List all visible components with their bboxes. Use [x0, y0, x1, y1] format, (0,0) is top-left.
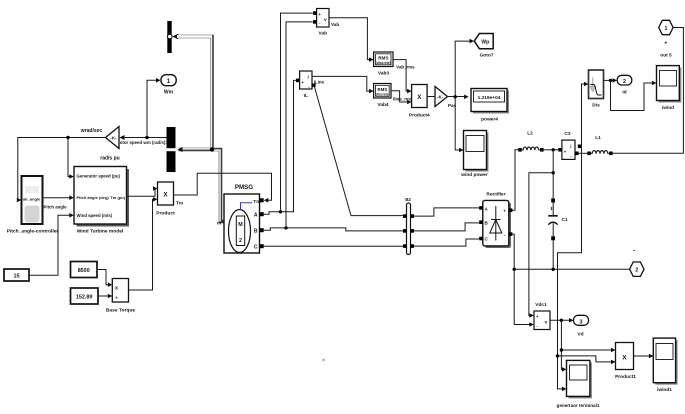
scope iwind [657, 66, 682, 111]
svg-text:+: + [301, 80, 304, 85]
svg-text:RMS: RMS [378, 55, 388, 60]
machine PMSG block [217, 194, 261, 253]
port Tm [260, 198, 264, 202]
svg-text:Tm: Tm [176, 200, 183, 206]
svg-text:15: 15 [14, 273, 20, 279]
voltage measurement Vdc1 [529, 302, 550, 330]
wire iLine signal to RMS Vab4 [312, 76, 374, 93]
svg-text:-K-: -K- [110, 136, 117, 141]
measurement bus m (double line) [177, 36, 224, 222]
svg-text:L2: L2 [527, 131, 533, 137]
svg-text:iwind1: iwind1 [657, 387, 672, 393]
bus junction dot [210, 147, 214, 151]
wire C3 to L1 [579, 152, 588, 154]
RMS block Vab4 [374, 84, 391, 109]
svg-text:Tm (pu): Tm (pu) [110, 195, 125, 200]
RMS block Vab3 [374, 52, 393, 77]
svg-text:out 5: out 5 [660, 53, 672, 59]
outport 1 Wm [161, 75, 176, 96]
voltage measurement Vab [313, 9, 329, 37]
svg-text:Base Torque: Base Torque [106, 308, 136, 314]
port hexagon 2 [630, 248, 644, 277]
svg-text:Product4: Product4 [409, 113, 430, 119]
constant 152.89 [71, 288, 99, 304]
svg-text:Vab4: Vab4 [377, 102, 389, 108]
svg-text:-K-: -K- [437, 95, 444, 100]
wire phase A continuation (diagonal) to B2 [315, 87, 404, 216]
bus bar B2 [403, 197, 414, 255]
svg-text:wrad/sec: wrad/sec [80, 128, 103, 134]
display power4 [471, 89, 509, 123]
svg-text:C: C [254, 244, 258, 250]
capacitor C1 [548, 199, 568, 270]
svg-text:3: 3 [580, 319, 583, 325]
scope wind power [460, 131, 488, 178]
svg-text:x: x [115, 286, 118, 292]
svg-text:Wind Turbine model: Wind Turbine model [77, 229, 124, 235]
svg-text:Product1: Product1 [615, 374, 636, 380]
bus selector [167, 127, 176, 172]
svg-text:Pac: Pac [448, 103, 457, 108]
svg-text:(discrete): (discrete) [375, 93, 390, 97]
port A [260, 212, 264, 216]
wire Rotor speed wm to gain [114, 135, 168, 145]
svg-text:m: m [217, 221, 221, 226]
svg-text:iLine: iLine [314, 80, 325, 85]
wire Product1 to iwind1 scope [634, 354, 654, 359]
wire 15 to wind speed input [29, 213, 74, 275]
wire L1 to port 1 [613, 28, 684, 154]
DC- rail to port 2 [513, 268, 630, 271]
subsystem Pitch_angle-controller [7, 176, 59, 235]
saturation Dis [589, 70, 604, 108]
scope genertaor terminal1 [557, 360, 600, 408]
svg-text:Rectifier: Rectifier [486, 191, 505, 197]
svg-text:i: i [308, 75, 309, 80]
svg-text:Vab_rms: Vab_rms [396, 65, 415, 70]
gain -K- (rad/s to pu) [80, 127, 120, 162]
svg-text:Id: Id [622, 90, 626, 96]
divide Base Torque [106, 279, 136, 314]
current measurement C3 [558, 131, 581, 160]
wire Id to iwind scope [611, 80, 657, 110]
wire C3 i signal up to Dis [582, 84, 586, 146]
svg-text:+: + [318, 12, 321, 17]
svg-text:Goto7: Goto7 [480, 53, 494, 59]
svg-text:<Rotor speed wm (rad/s)>: <Rotor speed wm (rad/s)> [114, 140, 168, 145]
wire B2 to rectifier C [414, 239, 479, 246]
gain Pac [435, 87, 448, 107]
svg-text:X: X [622, 355, 627, 362]
wire Tm to PMSG [174, 173, 272, 206]
svg-text:1: 1 [664, 26, 667, 32]
product Product [156, 182, 175, 217]
port B [260, 228, 264, 232]
svg-text:rad/s pu: rad/s pu [100, 156, 119, 162]
svg-text:C1: C1 [562, 217, 568, 223]
wire 152.89 to divide [98, 294, 112, 299]
svg-text:8500: 8500 [78, 268, 90, 274]
wire B2 to rectifier A [414, 208, 479, 216]
wire Product4 to gain [427, 96, 435, 98]
svg-text:v: v [545, 320, 548, 325]
svg-text:B: B [254, 228, 258, 234]
svg-text:air_angle: air_angle [23, 197, 41, 202]
svg-text:iwind: iwind [662, 105, 674, 111]
svg-text:Tm: Tm [253, 199, 260, 205]
node: branch to generator speed input [66, 136, 74, 179]
svg-text:genertaor terminal1: genertaor terminal1 [557, 403, 600, 408]
svg-text:Pitch_angle-controller: Pitch_angle-controller [7, 229, 59, 235]
svg-text:÷: ÷ [115, 296, 118, 302]
svg-text:Wm: Wm [164, 90, 174, 96]
port C [260, 244, 264, 248]
svg-text:152.89: 152.89 [76, 294, 93, 300]
outport 2 Id [617, 75, 632, 95]
rectifier [479, 191, 512, 248]
scope iwind1 [653, 338, 677, 393]
wire 8500 to divide [97, 270, 112, 288]
svg-text:+: + [536, 314, 539, 319]
current measurement IL [296, 71, 325, 99]
wire rectifier - down [512, 234, 514, 269]
inductor L1 [587, 135, 612, 155]
inductor L2 [518, 131, 543, 152]
wire Dis to Id [604, 78, 618, 83]
svg-text:PMSG: PMSG [235, 184, 253, 191]
wire DC+ branch to Vdc1 [529, 173, 553, 316]
product Product4 [409, 85, 430, 119]
wire DC+ branch to C1 [552, 150, 555, 199]
svg-text:v: v [324, 18, 327, 23]
wire phase C [264, 245, 403, 247]
node: branch to Wm outport [145, 78, 160, 139]
wire Tm(pu) to Product [127, 186, 158, 196]
product Product1 [615, 343, 636, 381]
wire phase A [264, 13, 313, 214]
wire C3 i signal down to Product1 and scope [556, 146, 616, 391]
wire L2 to C3 [544, 148, 559, 151]
svg-text:power4: power4 [481, 117, 498, 123]
outport 3 Vd [574, 315, 589, 337]
svg-text:-: - [633, 248, 635, 255]
wire Base Torque to Product [129, 197, 158, 290]
svg-text:wind power: wind power [460, 172, 488, 178]
svg-text:Product: Product [156, 211, 175, 217]
subsystem Wind Turbine model [74, 167, 129, 235]
svg-text:1: 1 [167, 78, 171, 85]
svg-text:Wind speed (m/s): Wind speed (m/s) [77, 213, 113, 218]
wire B2 to rectifier B [414, 223, 479, 231]
svg-text:+: + [564, 150, 567, 155]
wire phase B [264, 22, 403, 231]
wire Vab signal to RMS Vab3 [329, 18, 374, 62]
svg-text:Vdc1: Vdc1 [535, 302, 547, 308]
constant 8500 [71, 262, 98, 278]
goto Wp (Goto7) [474, 34, 494, 59]
port hexagon 1 [659, 20, 673, 58]
svg-text:L1: L1 [595, 135, 601, 141]
wire Vab_rms to Product4 [393, 60, 415, 94]
wire Pitch angle [43, 195, 74, 209]
svg-text:2: 2 [635, 268, 638, 274]
svg-text:Generator speed (pu): Generator speed (pu) [77, 174, 121, 179]
wire Vd branch to Product1 and scope [560, 320, 616, 371]
svg-text:1.219e+04: 1.219e+04 [478, 95, 501, 101]
wire rectifier + to L2 [512, 150, 518, 210]
svg-text:Vab: Vab [331, 22, 339, 27]
svg-text:2: 2 [623, 79, 626, 85]
svg-text:Vd: Vd [577, 332, 583, 338]
svg-text:IL: IL [304, 93, 308, 99]
wire DC- to Vdc1 [514, 269, 531, 324]
svg-text:B2: B2 [405, 197, 411, 202]
svg-text:2: 2 [239, 238, 242, 244]
svg-text:Vab3: Vab3 [378, 71, 390, 77]
svg-text:M: M [238, 222, 243, 228]
wire gain output to pitch controller [17, 138, 106, 203]
svg-text:A: A [254, 212, 258, 218]
svg-text:Wp: Wp [481, 40, 489, 46]
svg-text:Vab: Vab [319, 31, 328, 37]
svg-text:RMS: RMS [377, 87, 387, 92]
bus terminator (rotor hub) [167, 21, 178, 53]
svg-text:Dis: Dis [592, 102, 600, 108]
svg-text:Pitch angle: Pitch angle [44, 205, 68, 210]
wire Vd [550, 318, 574, 323]
annotation blue dot [322, 359, 324, 361]
svg-text:C3: C3 [564, 131, 570, 137]
svg-text:i: i [570, 144, 571, 149]
svg-text:+: + [503, 209, 506, 214]
svg-text:(discrete): (discrete) [376, 61, 391, 65]
wire iline_rms to Product4 [391, 91, 413, 105]
svg-text:Pitch angle (deg): Pitch angle (deg) [77, 195, 110, 200]
svg-text:iline_rms: iline_rms [393, 96, 413, 101]
constant 15 [4, 269, 29, 281]
wire Pac [448, 39, 475, 153]
